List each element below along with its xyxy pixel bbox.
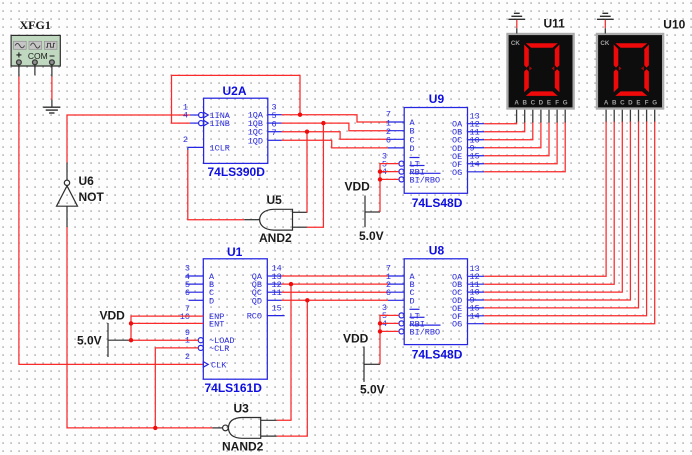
svg-text:6: 6 [386,288,391,298]
svg-text:F: F [555,100,559,107]
U8 pin 4 input BI/RBO [399,329,404,334]
svg-text:VDD: VDD [343,332,369,346]
junction 1QB node [321,121,325,125]
nand gate U3 NAND2 [222,402,264,454]
svg-text:10: 10 [180,312,190,322]
svg-text:U11: U11 [544,17,566,31]
U1 pin 13 output QB [267,283,281,285]
svg-text:A: A [514,100,519,107]
U8 body [404,259,467,345]
svg-text:CK: CK [511,40,520,47]
U9 pin 14 output OG [468,171,485,173]
power VDD for U1 [77,309,131,358]
junction U1 QB [289,282,293,286]
seven segment display U11 [506,33,575,123]
svg-text:OG: OG [452,320,462,330]
junction U1 ENT [129,321,133,325]
wire 1QA feedback to 1INB [172,75,301,123]
U2A output pin 1QC [268,131,282,133]
svg-text:4: 4 [183,111,188,121]
wire VDD to U9 LT/RBI/BI [380,164,399,212]
inverter U6 NOT [57,174,105,206]
wire U6 input stub [66,206,68,227]
U2A output pin 1QD [268,139,282,141]
U1 pin 3 input A [186,275,204,277]
svg-text:F: F [645,100,649,107]
svg-text:D: D [209,296,214,306]
svg-text:15: 15 [272,303,282,313]
U8 pin 11 output OC [468,291,485,293]
svg-text:U1: U1 [227,245,243,259]
wire VDD to U8 LT/RBI/BI [380,315,399,364]
svg-text:D: D [410,296,415,306]
U9 pin 10 output OD [468,147,485,149]
seven segment display U10 [596,33,665,123]
svg-text:6: 6 [386,136,391,146]
wire U6 input from NAND output net [67,227,213,428]
svg-text:D: D [539,100,544,107]
svg-text:D: D [410,144,415,154]
svg-text:XFG1: XFG1 [20,18,51,32]
svg-text:VDD: VDD [100,309,126,323]
U9 pin 11 output OC [468,139,485,141]
svg-text:14: 14 [470,160,480,170]
svg-text:74LS48D: 74LS48D [412,347,463,361]
wire U1 QB to U3 input A [277,284,291,420]
U8 pin 15 output OF [468,315,485,317]
svg-text:BI/RBO: BI/RBO [410,327,441,337]
wire 1QB to U5 input B [307,123,324,227]
svg-text:C: C [531,100,536,107]
wire U1 QA to U8 A [282,275,389,277]
wire U3 output stub [213,427,223,429]
svg-text:U9: U9 [429,92,445,106]
wire U6 output stub [66,163,68,181]
U8 pin 7 input A [388,275,404,277]
wire U10 CK to ground [604,20,606,34]
U8 pin 12 output OB [468,283,485,285]
U9 pin 12 output OB [468,131,485,133]
junction NAND output net [153,426,157,430]
ground above U11 [508,13,525,19]
wire U5 output stub [244,219,259,221]
U1 pin 12 output QC [267,291,281,293]
svg-text:5.0V: 5.0V [77,334,102,348]
decoder U8 74LS48D [382,244,484,362]
wire U1 QB to U8 B [282,283,389,285]
svg-text:G: G [652,100,657,107]
svg-text:U5: U5 [267,193,283,207]
svg-text:AND2: AND2 [259,231,292,245]
junction U8 BI [378,329,382,333]
svg-text:C: C [620,100,625,107]
power VDD for U9 [345,180,384,244]
wire XFG1 plus to U1 CLK (node clock) [19,65,203,365]
svg-text:4: 4 [382,319,387,329]
U9 pin 7 input A [388,121,405,123]
U1 pin 5 input C [186,291,204,293]
U8 pin 10 output OD [468,299,485,301]
svg-text:74LS161D: 74LS161D [205,381,263,395]
U9 pin 4 input BI/RBO [399,177,404,182]
svg-text:1QD: 1QD [248,136,263,146]
svg-text:CK: CK [600,40,609,47]
U8 pin 3 input LT [399,313,404,318]
junction U9 BI [378,177,382,181]
wire VDD to U1 ENP/ENT/LOAD [131,316,203,340]
wire U3 input stubs [261,420,277,436]
wire U6 output to U2A 1INA [67,115,190,163]
wire XFG1 minus to ground [51,65,53,107]
counter U2A 74LS390D [183,84,282,179]
wire 1QC to U9 C [282,132,388,140]
svg-text:1INB: 1INB [210,119,230,129]
svg-text:VDD: VDD [345,180,371,194]
wire U2A 1CLR to U5 output [188,150,245,220]
svg-text:G: G [563,100,568,107]
counter U1 74LS161D [180,245,285,395]
svg-text:5.0V: 5.0V [359,229,384,243]
function generator XFG1 [11,18,60,66]
svg-text:NAND2: NAND2 [222,439,264,453]
svg-text:U3: U3 [234,402,250,416]
U9 pin 5 input RBI [399,169,404,174]
wire 1QB to U9 B [282,123,388,131]
and gate U5 AND2 [259,193,293,245]
svg-text:U10: U10 [663,17,685,31]
svg-text:74LS48D: 74LS48D [412,196,463,210]
svg-text:E: E [547,100,551,107]
junction 1QC node [305,130,309,134]
U2A output pin 1QA [268,114,282,116]
svg-text:11: 11 [272,288,282,298]
wire U11 CK to ground [516,20,518,34]
U8 pin 6 input D [388,299,404,301]
svg-text:U6: U6 [79,174,95,188]
U9 pin 15 output OF [468,163,485,165]
junction U1 QD [305,298,309,302]
U1 pin 14 output QA [267,275,281,277]
svg-text:NOT: NOT [79,190,105,204]
svg-text:B: B [612,100,617,107]
svg-text:ENT: ENT [209,319,224,329]
wire U1 QD to U8 D [282,299,389,301]
wire 1QD to U9 D [282,140,388,148]
U2A output pin 1QB [268,122,282,124]
svg-text:6: 6 [185,288,190,298]
U9 pin 13 output OA [468,123,485,125]
wire 1QC to U5 input A [306,132,308,213]
svg-text:74LS390D: 74LS390D [208,165,266,179]
power VDD for U8 [343,332,385,397]
svg-text:B: B [522,100,527,107]
wires U9 outputs to U11 segments [484,122,565,172]
wire U1 QD to U3 input B [277,300,308,436]
U8 pin 9 output OE [468,307,485,309]
U1 pin 6 input D [189,299,204,301]
svg-text:RCO: RCO [247,312,262,322]
U9 pin 9 output OE [468,155,485,157]
svg-text:2: 2 [183,135,188,145]
svg-text:A: A [604,100,609,107]
junction U8 RBI [378,321,382,325]
svg-text:~CLR: ~CLR [209,344,229,354]
junction 1QA node [298,113,302,117]
U8 pin 5 input RBI [399,321,404,326]
svg-text:E: E [636,100,640,107]
U9 pin 1 input B [388,130,405,132]
ground GND1 below XFG1 [43,107,60,113]
U1 pin 4 input B [186,283,204,285]
U8 pin 14 output OG [468,323,485,325]
svg-text:5.0V: 5.0V [360,383,385,397]
svg-text:BI/RBO: BI/RBO [410,175,441,185]
svg-text:14: 14 [470,311,480,321]
svg-text:COM: COM [28,51,48,61]
svg-text:QD: QD [252,296,262,306]
wire XFG1 COM stub [34,65,36,75]
wire U1 QC to U8 C [282,291,389,293]
junction U9 RBI [378,169,382,173]
U8 pin 13 output OA [468,275,485,277]
U8 pin 2 input C [388,291,404,293]
svg-text:1CLR: 1CLR [210,143,230,153]
U9 body [404,108,467,194]
wire U3 output to U1 CLR [155,348,198,428]
U2A clock input pin 1INA [190,114,199,116]
svg-text:CLK: CLK [211,360,227,370]
U8 pin 1 input B [388,283,404,285]
svg-text:7: 7 [272,128,277,138]
U9 pin 6 input D [388,147,405,149]
junction U1 LOAD [129,338,133,342]
svg-text:2: 2 [185,352,190,362]
decoder U9 74LS48D [382,92,484,210]
wire U5 input stubs [293,212,307,227]
U2A clock input pin 1INB [190,122,199,124]
U9 pin 2 input C [388,138,405,140]
svg-text:U2A: U2A [223,84,247,98]
ground above U10 [597,13,614,19]
wire 1QA to U9 A [282,115,388,122]
U9 pin 3 input LT [399,161,404,166]
svg-text:U8: U8 [429,244,445,258]
U1 pin 11 output QD [267,299,281,301]
wires U8 outputs to U10 segments [484,122,654,324]
svg-text:OG: OG [452,168,462,178]
svg-text:D: D [628,100,633,107]
